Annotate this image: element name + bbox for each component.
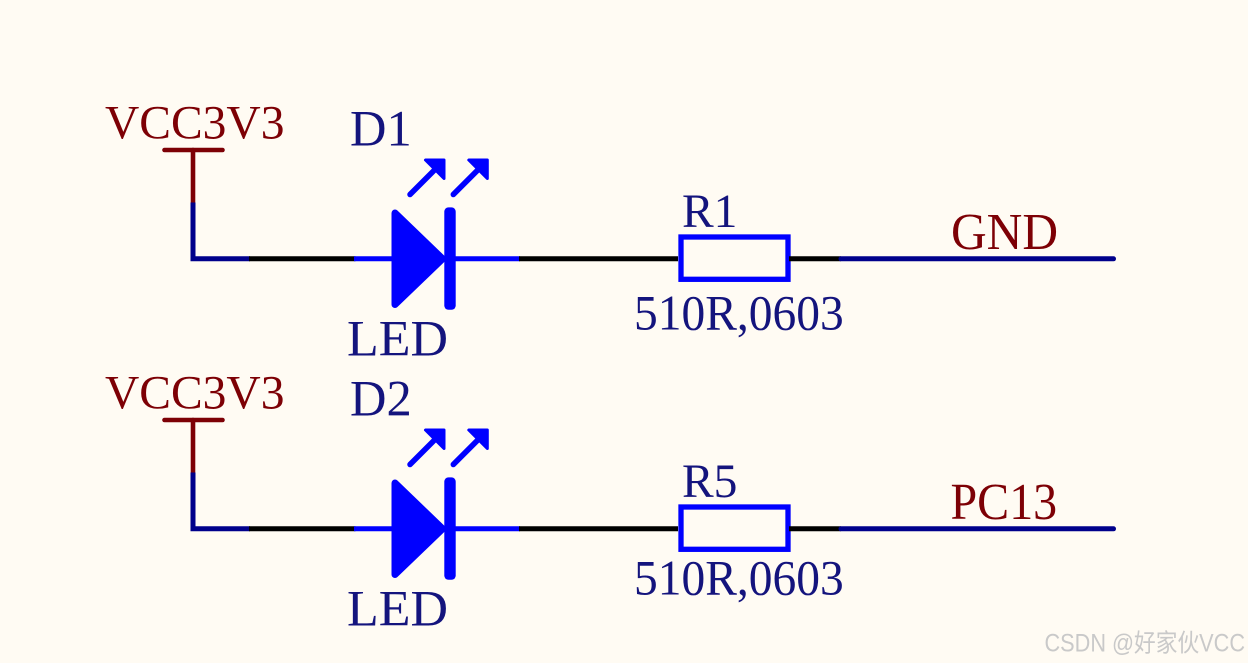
svg-text:CSDN @好家伙VCC: CSDN @好家伙VCC	[1045, 630, 1246, 658]
svg-text:510R,0603: 510R,0603	[634, 551, 844, 606]
LED D1	[395, 160, 487, 310]
svg-text:PC13: PC13	[951, 472, 1058, 530]
diode D1 anode pin	[354, 256, 392, 261]
wire net PC13 (row 2, navy)	[841, 526, 1114, 531]
diode D1 cathode pin	[454, 256, 520, 261]
diode D2 anode pin	[354, 526, 392, 531]
wire row 2 black segment middle	[519, 526, 678, 531]
svg-text:LED: LED	[347, 581, 448, 637]
wire row 1 black segment right	[789, 256, 841, 261]
wire row 1 black segment middle	[519, 256, 678, 261]
wire net GND (row 1, navy)	[841, 256, 1114, 261]
svg-text:R1: R1	[682, 186, 737, 238]
wire vertical from VCC to row 1	[193, 203, 250, 259]
wire vertical from VCC to row 2	[193, 473, 250, 529]
svg-text:D1: D1	[350, 101, 412, 157]
svg-text:VCC3V3: VCC3V3	[105, 98, 284, 150]
resistor R5	[681, 507, 788, 549]
wire row 2 black segment right	[789, 526, 841, 531]
svg-text:VCC3V3: VCC3V3	[105, 368, 284, 420]
diode D2 cathode pin	[454, 526, 520, 531]
svg-text:R5: R5	[682, 456, 737, 508]
svg-text:D2: D2	[350, 371, 412, 427]
power symbol VCC3V3 (row 1)	[165, 150, 223, 203]
power symbol VCC3V3 (row 2)	[165, 420, 223, 473]
wire row 1 black segment left	[249, 256, 356, 261]
resistor R1	[681, 237, 788, 279]
wire row 2 black segment left	[249, 526, 356, 531]
LED D2	[395, 430, 487, 580]
svg-text:GND: GND	[951, 202, 1058, 260]
svg-text:510R,0603: 510R,0603	[634, 285, 844, 340]
svg-text:LED: LED	[347, 311, 448, 367]
